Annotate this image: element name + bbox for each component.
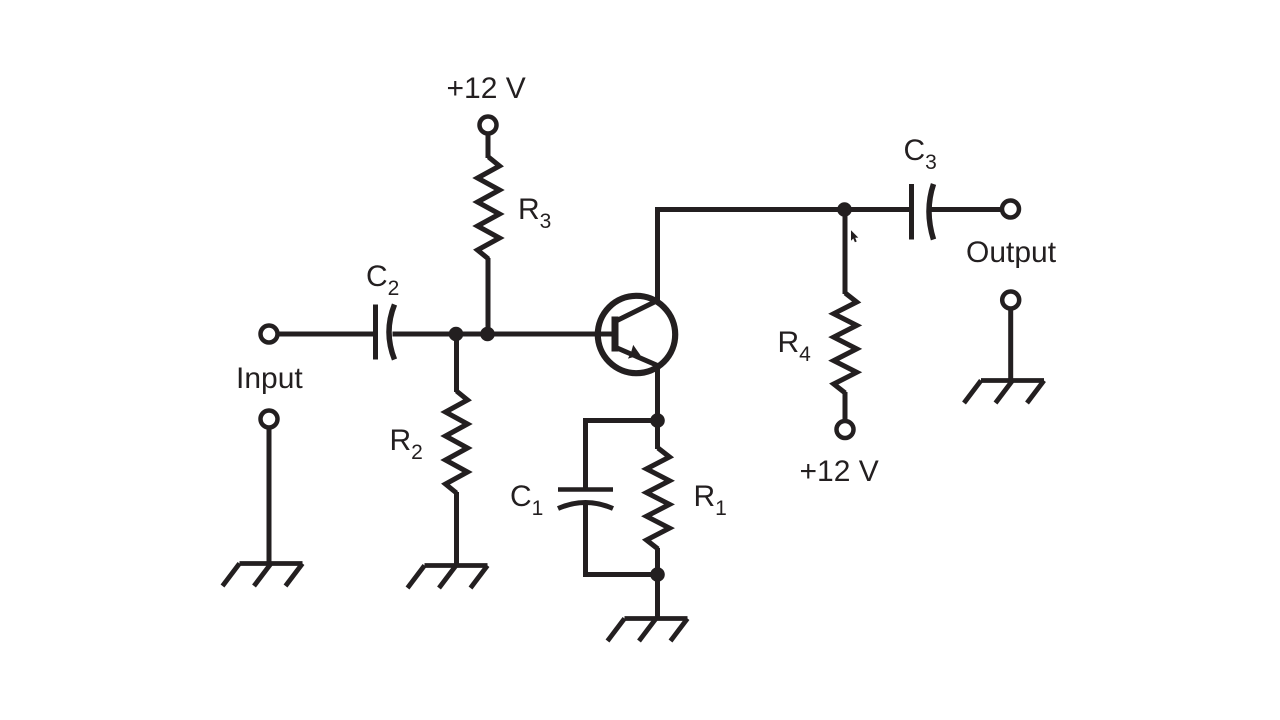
svg-text:R4: R4 (778, 326, 812, 366)
wire base (393, 332, 615, 337)
terminal +12V bottom (837, 421, 854, 438)
capacitor C2 (376, 305, 395, 360)
wire emitter down (655, 365, 660, 422)
wire C1 top (583, 418, 658, 423)
node dot (480, 327, 495, 342)
ground (input) (223, 564, 303, 587)
wire (454, 492, 459, 566)
input ground terminal (261, 411, 278, 428)
resistor R2 (446, 391, 468, 493)
svg-text:R1: R1 (694, 480, 727, 520)
wire R2 top (454, 334, 459, 392)
terminal +12V top (480, 117, 497, 134)
svg-text:C2: C2 (366, 260, 399, 300)
svg-text:C1: C1 (510, 480, 543, 520)
ground (R1/C1) (608, 619, 688, 642)
mouse cursor (851, 230, 858, 242)
wire C1 bottom run (583, 572, 658, 577)
svg-text:R2: R2 (390, 424, 423, 464)
wire collector up (655, 212, 660, 303)
svg-text:Input: Input (236, 362, 303, 395)
svg-text:Output: Output (966, 236, 1057, 269)
wire collector top run (655, 207, 911, 212)
wire (931, 207, 1001, 212)
node dot (837, 202, 852, 217)
node dot (449, 327, 464, 342)
capacitor C3 (912, 184, 934, 240)
wire C1 bottom down (583, 505, 588, 575)
node dot (emitter bottom) (650, 567, 665, 582)
wire (278, 332, 374, 337)
wire (486, 134, 491, 158)
wire (486, 258, 491, 334)
resistor R1 (655, 419, 660, 449)
svg-text:+12 V: +12 V (447, 72, 526, 105)
wire C1 left down (583, 418, 588, 490)
output ground terminal (1002, 292, 1019, 309)
wire (1008, 309, 1013, 381)
wire to ground (655, 575, 660, 619)
input terminal (261, 326, 278, 343)
capacitor C1 (558, 490, 613, 509)
svg-text:R3: R3 (518, 193, 551, 233)
wire (267, 428, 272, 564)
svg-text:C3: C3 (904, 134, 937, 174)
resistor R3 (478, 157, 500, 259)
ground (R2) (408, 566, 488, 589)
ground (output) (964, 381, 1044, 404)
node dot (emitter junction) (650, 413, 665, 428)
output terminal (1002, 201, 1019, 218)
transistor Q1 (598, 296, 675, 373)
resistor R4 (843, 216, 848, 294)
svg-text:+12 V: +12 V (800, 455, 879, 488)
